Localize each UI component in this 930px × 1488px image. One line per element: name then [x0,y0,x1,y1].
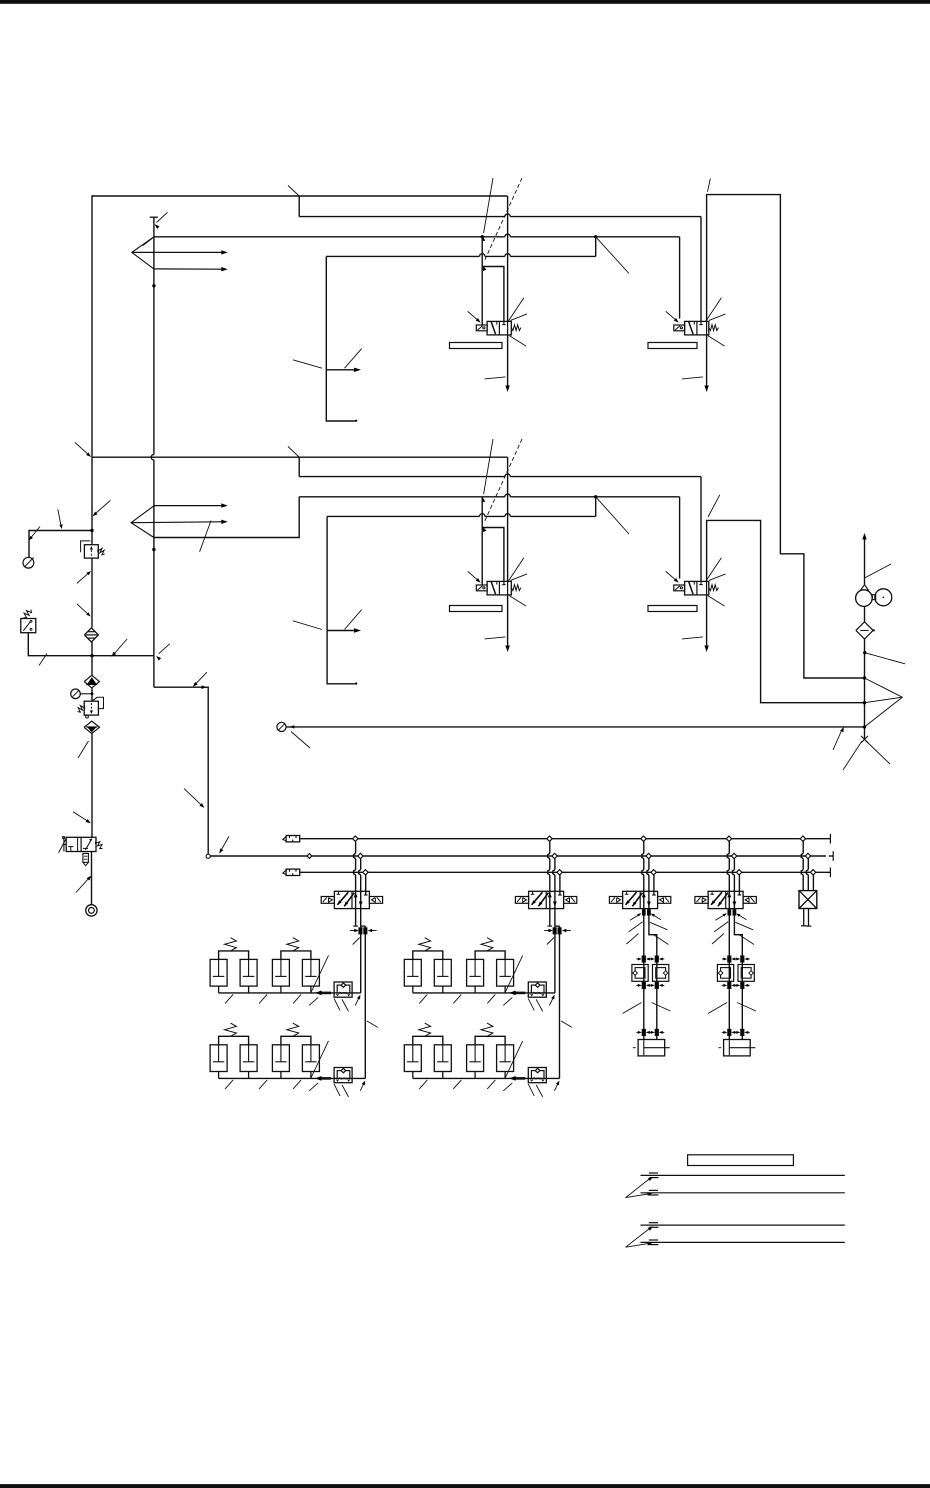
cylinder pair A row2 cluster1 [210,1023,257,1078]
leader to X b [843,741,862,770]
wire drop valve V3 right from header [507,457,509,581]
leader to riser x92 [93,501,111,517]
wire drop A BV1 [354,841,356,926]
flow control row1 cluster1 [334,982,352,997]
leader b to service arrow sec2 [345,610,362,630]
leader to gauge line [58,509,63,529]
pressure switch PS1 body [21,610,36,633]
wire riser check to reg2 [91,688,93,701]
node diamond bus A BV2 [547,836,552,841]
node junction bus1/bus2 sec1 [594,235,597,238]
valve V3 exhaust tick [485,637,506,639]
wire riser x154 [151,217,154,687]
leader to V3 top right [508,558,524,581]
fork arrows distribution sec1 [132,237,228,272]
leader arrow on gauge line [833,727,844,750]
row hatch marks row2 cluster2 [419,1080,512,1091]
page top border bar [0,0,930,3]
leader arrow row1 junction cluster1 [355,995,360,1006]
clamp cylinder BV4 [718,1040,755,1056]
bus C line [300,871,831,873]
bus A line [300,838,831,840]
wire drop valve V1 right from header [507,196,509,321]
plug fitting bus C [283,869,300,875]
flow arrow row1 cluster1 [315,991,331,996]
leader arrow to coupling line [76,876,91,893]
wire drop B BV1 [359,859,361,926]
fork arrows distribution sec2 [131,503,228,537]
wire L-drop service sec1 [326,256,357,421]
leader arrow to bus B [219,836,229,853]
leaders mid BV4 [708,1003,756,1014]
label bar under V2 [648,343,697,349]
bulkhead ticks BV3 y959 R [649,956,664,962]
wire switch to junction [28,633,154,656]
wire notch branch sec1 [299,196,701,217]
leader to PI3 line [290,725,310,748]
wire drop valve V3 solenoid [481,497,483,585]
leader to V2 top right [706,298,722,321]
node diamond bus A Xbox [800,836,805,841]
node dot on riser x154 sec2 [152,548,155,551]
leader to row2 feed cluster1 [367,1021,378,1028]
wire main supply header sec2 [92,456,508,458]
leader arrow to x208 riser [184,789,204,808]
valve V1 solenoid 3/2 body [476,321,521,335]
wire bus1 sec1 y237 [154,234,680,237]
wire BV2 branch row1 [554,926,556,993]
leaders below valve BV4 [712,913,754,944]
row hatch marks row1 cluster2 [419,994,512,1005]
plug fitting bus A [283,836,300,842]
flow arrow row2 cluster2 [509,1076,525,1081]
bulkhead ticks BV3 y985 R [649,982,664,988]
valve V4 exhaust tick [682,637,703,639]
Xbox stub R [806,909,812,927]
node junction y727 [863,725,866,728]
legend line 2b [641,1240,845,1245]
wire BV1 branch row1 [360,926,362,993]
node diamond bus A BV4 [726,836,731,841]
leader to V4 solenoid [666,571,679,582]
wire notch branch sec2 [299,457,701,476]
flow control BV3 R [653,965,669,982]
wire left supply riser x92 sec1 [91,195,93,457]
wire BV1 port plug tick [353,925,358,927]
wire jog bus sec2 [154,494,680,537]
valve BV1 5/2 body [321,891,382,908]
legend fork 1 [626,1177,653,1198]
flow arrow row1 cluster2 [509,991,525,996]
leader long dashed to valve V1 bridge [483,178,522,271]
leader to V1 top right [508,298,524,321]
leader to V3 solenoid [468,571,481,582]
flow control BV4 L [717,965,733,982]
node T vent at top of x154 riser [150,216,158,218]
leader from junction sec2 [596,497,629,534]
hand valve HV1 body [66,837,96,851]
leader below flow a row1 cluster2 [528,998,534,1010]
leader arrow to junction y655 x154 [156,644,170,661]
node junction y702 [863,701,866,704]
regulator PR1 body [81,541,99,558]
wire V4 right port path [707,520,865,702]
valve V1 exhaust line [505,335,509,392]
wire drop valve V1 solenoid [481,237,483,325]
valve V3 exhaust line [505,595,509,652]
wire drop C Xbox [812,875,814,891]
flow control row2 cluster2 [528,1068,546,1083]
node dot on riser x154 sec1 [152,284,155,287]
bus A end tick [829,834,831,844]
wire riser filter to pump [864,606,866,622]
node diamond bus A BV3 [641,836,646,841]
node circle manifold inlet [206,854,210,858]
leader to V2 solenoid [666,311,679,322]
leader from right riser dot [865,653,905,664]
leader below flow b row1 cluster1 [342,999,349,1011]
leader to V1 spring a [511,314,528,321]
gauge PI2 [71,689,94,699]
wire bus2 sec2 [327,497,596,517]
wire BV4 drop right jog [734,926,742,1039]
wire drop C BV1 [364,875,368,895]
valve V2 exhaust tick [682,377,703,379]
leader arrow row2 junction cluster1 [360,1081,365,1091]
leader arrow to riser above valve [73,812,91,824]
valve V3 solenoid 3/2 body [476,581,521,595]
wire BV1 outlet branch [361,925,366,927]
label bar under V4 [648,606,697,612]
leader to V4 spring b [708,596,725,606]
leader below flow b row2 cluster1 [342,1085,349,1097]
bulkhead ticks BV3 y985 L [636,982,651,988]
leader to V2 spring a [709,314,726,321]
leader to V1 solenoid [468,311,481,322]
wire drop A BV2 [548,841,550,926]
bulkhead ticks BV4 y985 R [735,982,750,988]
leader to notch corner sec2 [288,447,299,458]
wire BV2 outlet branch [555,925,560,927]
node dot right riser [863,651,866,654]
legend title box [688,1155,794,1166]
leader to V1 spring b [510,336,527,346]
wire left supply riser x92 sec2 [91,457,93,545]
bulkhead ticks BV4 y985 L [722,982,737,988]
bus B end tick [832,851,834,861]
wire BV3 drop right jog [649,926,657,1039]
wire L-drop service sec2 [327,516,357,684]
wire drop C BV3 [652,875,656,895]
flow arrow row2 cluster1 [315,1076,331,1081]
leader to V2 spring b [708,336,725,346]
regulator PR2 body [84,697,103,718]
cylinder pair A row2 cluster2 [404,1023,451,1078]
row manifold line row1 cluster2 [413,992,555,994]
node diamond bus C BV4 [736,870,741,875]
leader long solid to valve V3 drop [482,439,493,502]
leader below flow a row2 cluster1 [334,1084,340,1096]
leaders below valve BV3 [627,913,669,944]
wire bridge V3 left port [482,528,504,582]
filter F1 [84,628,98,642]
leader to junction y655 [112,639,128,657]
row manifold line row2 cluster1 [219,1077,366,1079]
leader to pump outlet [865,564,892,578]
vent triangle above pump [861,585,869,590]
wire valve to coupling [91,852,93,905]
bulkhead ticks BV4 y959 R [735,956,750,962]
node diamond bus C BV3 [651,870,656,875]
wire drop B Xbox [806,859,808,891]
node junction bus1/bus2 sec2 [594,495,597,498]
gauge PI3 line [277,722,865,731]
Xbox stub L [801,909,807,926]
leader below flow a row1 cluster1 [334,998,340,1010]
leader slash at flow row1 cluster2 [505,955,523,993]
flow control row1 cluster2 [528,982,546,997]
bulkhead ticks below valve BV4 [728,910,736,915]
leaders mid BV3 [623,1003,671,1014]
wire drop A BV3 [642,841,644,926]
closed port X [861,736,868,743]
coupling BV1 blocks [350,928,377,934]
leader to row2 feed cluster2 [561,1021,572,1028]
bus C end tick [829,868,831,878]
flow control BV3 L [632,965,648,982]
node small diamond on bus B [307,854,312,859]
pump P1 circles [856,589,892,607]
valve V2 solenoid 3/2 body [674,321,719,335]
regulator PR2 spring [78,705,85,712]
leader to y655 line left [39,654,47,666]
leader arrow row1 junction cluster2 [549,995,554,1006]
leader to riser above F1 [77,604,91,617]
closed box X exhaust [799,891,817,909]
bulkhead ticks BV4 y1032 R [735,1029,750,1035]
node junction gauge branch [90,529,93,532]
bulkhead ticks BV3 y1032 R [649,1029,664,1035]
coupling BV2 blocks [544,928,571,934]
flow control row2 cluster1 [334,1068,352,1083]
leader arrow to corner y687 [193,672,207,689]
leader b to service arrow sec1 [345,349,362,369]
valve V2 exhaust line [704,335,708,392]
wire BV2 branch row2 [559,926,561,1078]
leader from junction sec1 [596,237,629,274]
valve V1 exhaust tick [485,377,506,379]
wire V2 right port to right riser [707,195,865,678]
leader to CV2 [78,741,89,758]
wire riser filter to check [91,642,93,675]
leader slash at flow row2 cluster1 [311,1041,329,1079]
leader to riser x154 sec2 [75,443,91,458]
clamp cylinder BV3 [633,1040,670,1056]
cylinder pair B row1 cluster2 [467,938,514,993]
check valve CV1 [84,675,99,688]
wire drop to valve V2 port [700,217,702,322]
cylinder pair B row2 cluster1 [272,1023,319,1078]
leader a to service arrow sec1 [293,360,322,368]
leader long dashed to valve V3 bridge [483,439,522,532]
leader to riser below PR1 [77,571,91,583]
wire drop B BV3 [647,859,649,926]
quick coupling QC1 [86,905,97,916]
cylinder pair A row1 cluster2 [404,938,451,993]
muffler M1 [83,853,89,865]
node diamond bus C Xbox [810,870,815,875]
wire right riser [864,639,866,739]
node diamond bus C BV1 [363,870,368,875]
bulkhead ticks BV4 y1032 L [722,1029,737,1035]
wire gauge branch top [29,531,92,558]
legend line 1a [641,1173,845,1178]
bus B line [210,855,833,857]
cylinder pair A row1 cluster1 [210,938,257,993]
label bar under V1 [450,343,503,349]
wire drop to valve V4 solenoid [679,497,681,579]
page bottom border bar [0,1485,930,1488]
row manifold line row1 cluster1 [219,992,361,994]
row hatch marks row2 cluster1 [225,1080,318,1091]
leader to X a [866,741,890,764]
row hatch marks row1 cluster1 [225,994,318,1005]
arrow branch service sec1 [326,368,361,372]
legend fork 2 [626,1226,653,1247]
leader below coupling BV2 [547,938,554,945]
leader to V2 riser corner [707,179,710,192]
leader to riser T [155,212,168,229]
wire drop to valve V4 port [700,477,702,582]
leader below flow a row2 cluster2 [528,1084,534,1096]
legend line 1b [641,1190,845,1195]
valve BV3 5/2 body [609,891,670,908]
bulkhead ticks BV3 y1032 L [636,1029,651,1035]
node diamond bus B BV3 [646,853,651,858]
valve V4 solenoid 3/2 body [674,581,719,595]
node diamond bus C BV2 [557,870,562,875]
hand valve HV1 lever [59,837,67,853]
valve BV2 5/2 body [515,891,576,908]
wire drop B BV2 [553,859,555,926]
wire bus2 sec1 y256 [326,237,595,257]
leader below flow b row2 cluster2 [536,1085,543,1097]
label bar under V3 [450,606,503,612]
gauge PI1 circle [23,557,34,568]
leader to V3 spring b [510,596,527,606]
bulkhead ticks BV4 y959 L [722,956,737,962]
leader long solid to valve V1 drop [482,178,493,241]
leader to PI1 riser [29,527,40,541]
node diamond bus B Xbox [805,853,810,858]
leader to V4 top right [706,558,722,581]
wire drop A BV4 [727,841,729,926]
leader to V3 spring a [511,574,528,581]
arrow branch service sec2 [327,628,361,632]
flow control BV4 R [738,965,754,982]
valve BV4 5/2 body [695,891,756,908]
leader to bus1 start [143,238,153,245]
wire riser to hand valve [91,734,93,838]
node diamond bus B BV4 [731,853,736,858]
leader slash at flow row2 cluster2 [505,1041,523,1079]
wire BV1 branch row2 [364,926,366,1078]
node junction V1 solenoid drop [481,235,484,238]
node junction x92 y655 [90,654,93,657]
wire riser x92 reg to filter [91,558,93,627]
leader crossing fork arrow sec2 [200,521,211,552]
leader arrow row2 junction cluster2 [554,1081,559,1091]
node junction y678 [863,676,866,679]
bulkhead ticks below valve BV3 [642,910,650,915]
leader slash at flow row1 cluster1 [311,955,329,993]
wire BV4 drop left [728,926,730,1039]
leader a to service arrow sec2 [293,621,322,630]
wire drop to valve V2 solenoid [679,237,681,319]
wire main supply top header [92,195,507,197]
wire pump outlet up [862,533,866,585]
wire riser to manifold [154,687,208,854]
node diamond bus A BV1 [353,836,358,841]
hand valve HV1 spring [95,841,102,849]
cylinder pair B row2 cluster2 [467,1023,514,1078]
wire drop C BV4 [738,875,742,895]
row manifold line row2 cluster2 [413,1077,560,1079]
wire drop C BV2 [558,875,562,895]
leader to V4 riser corner [708,495,720,517]
wire BV2 port plug tick [548,925,553,927]
legend line 2a [641,1223,845,1228]
wire drop A Xbox [801,841,803,890]
leader below coupling BV1 [353,938,360,945]
wire drop B BV4 [732,859,734,926]
leader below flow b row1 cluster2 [536,999,543,1011]
leader to V4 spring a [709,574,726,581]
wire bridge V1 left port [482,267,504,322]
node diamond bus B BV2 [552,853,557,858]
filter F2 [856,622,875,639]
cylinder pair B row1 cluster1 [272,938,319,993]
bulkhead ticks BV3 y959 L [636,956,651,962]
regulator PR1 spring [98,548,105,555]
big fork collector [865,678,903,727]
leader to notch corner sec1 [288,186,299,197]
node diamond bus B BV1 [358,853,363,858]
check valve CV2 [84,721,99,733]
valve V4 exhaust line [704,595,708,652]
wire BV3 drop left [643,926,645,1039]
